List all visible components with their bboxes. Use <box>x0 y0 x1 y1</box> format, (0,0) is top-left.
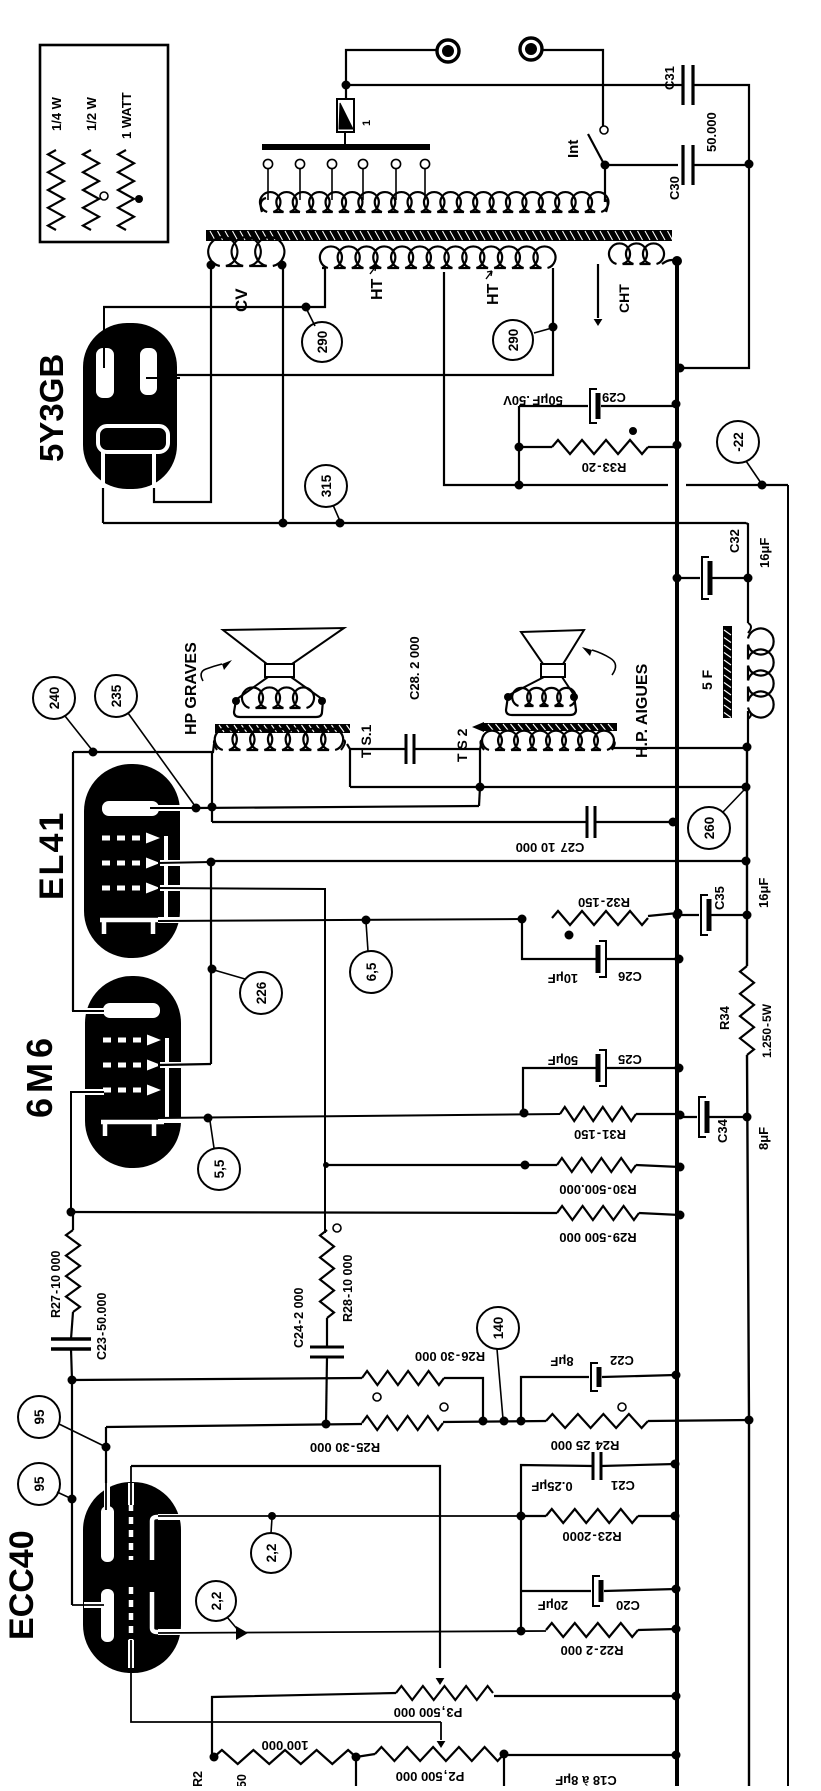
wire R29 right <box>639 1213 680 1215</box>
wire TS1 right down <box>347 744 350 787</box>
wire C21 leads <box>521 1465 593 1516</box>
wire bias node vertical <box>518 406 520 485</box>
HP GRAVES field coil <box>242 687 314 708</box>
R33 1W marker <box>629 427 637 435</box>
junction R26 on R24 line <box>479 1417 488 1426</box>
EL41 electrodes <box>102 801 159 816</box>
transformer TS1 primary <box>215 728 343 750</box>
svg-text:6,5: 6,5 <box>364 962 379 981</box>
P2 ground line <box>504 1754 676 1756</box>
svg-text:T S 2: T S 2 <box>454 728 470 762</box>
P3 wiper arrow <box>436 1678 445 1685</box>
wire C26 leads <box>522 919 596 959</box>
switch Int blade <box>588 134 604 164</box>
potentiometer P3 500.000 <box>396 1686 493 1700</box>
anode2 rail down <box>71 1380 73 1605</box>
junction C22 left <box>517 1417 526 1426</box>
wire C24 down to anode1 line <box>326 1357 327 1424</box>
anode1 line <box>105 1427 107 1512</box>
wire R27 to C23 <box>72 1212 74 1230</box>
svg-text:R29 - 500 000: R29 - 500 000 <box>559 1230 636 1245</box>
capacitor C23 <box>51 1337 91 1341</box>
cathode2 arrow tap <box>236 1626 248 1640</box>
primary tap 6 <box>420 159 429 168</box>
junction C24 on anode1 line <box>322 1420 331 1429</box>
wire TS1-left down to C27 line <box>211 752 213 822</box>
ECC40 anode 1 <box>101 1506 114 1562</box>
5Y3GB filament lead A <box>102 488 104 523</box>
junction TS2-left node <box>476 783 485 792</box>
speaker HP AIGUES cone <box>521 630 584 664</box>
wire fuse to tap bar <box>344 132 346 147</box>
HP AIGUES pointer arrow <box>592 650 616 675</box>
capacitor C28 <box>405 734 408 764</box>
junction EL41 cathode tap <box>362 916 371 925</box>
wire C32 leads <box>677 577 700 579</box>
circle 290 right <box>493 320 533 360</box>
5Y3GB anode 1 lead <box>103 307 105 368</box>
svg-text:R31 - 150: R31 - 150 <box>574 1127 626 1142</box>
choke SF winding <box>748 629 774 718</box>
svg-text:240: 240 <box>47 687 62 710</box>
svg-text:C34: C34 <box>715 1118 730 1143</box>
resistor R33 20 <box>552 440 648 454</box>
wire C27 right <box>595 821 673 823</box>
capacitor C22 <box>591 1363 598 1391</box>
svg-text:100 000: 100 000 <box>262 1738 309 1753</box>
primary tap 5 <box>391 159 400 168</box>
junction EL41 plate node <box>192 804 201 813</box>
svg-text:235: 235 <box>109 684 124 707</box>
svg-text:C20: C20 <box>616 1598 640 1613</box>
svg-text:1.250 - 5W: 1.250 - 5W <box>760 1003 774 1058</box>
R32 1W marker <box>565 931 574 940</box>
capacitor C25 <box>599 1050 606 1086</box>
resistor R24 25 000 <box>546 1414 648 1428</box>
wire switch to C30 <box>605 164 678 166</box>
HP AIGUES field coil <box>512 688 576 706</box>
switch Int contact <box>600 126 608 134</box>
wire R33 leads <box>519 446 552 448</box>
capacitor C31 <box>681 65 684 105</box>
ECC40 grid2 lead channel <box>128 1640 134 1668</box>
resistor 100 000 <box>214 1750 356 1764</box>
junction 140 tap <box>500 1417 509 1426</box>
wire P2 left <box>356 1754 375 1757</box>
wire B+ to TS2 <box>611 747 747 749</box>
junction R23 left <box>517 1512 526 1521</box>
junction R29 right on bus <box>676 1211 685 1220</box>
ECC40 cathode 2 <box>152 1592 162 1632</box>
output tube EL41 envelope <box>84 764 180 958</box>
svg-text:8μF: 8μF <box>550 1354 573 1369</box>
svg-text:C30: C30 <box>667 176 682 200</box>
ground bus <box>675 261 679 1786</box>
5Y3GB filament lead B to CV <box>154 266 211 502</box>
junction R33 right on bus <box>673 441 682 450</box>
junction C34 right <box>743 1113 752 1122</box>
EL41 cathode lead <box>158 917 181 923</box>
junction plate line / TS1-left branch <box>208 803 217 812</box>
wire C23 down <box>71 1349 72 1380</box>
junction 95 tap upper <box>102 1443 111 1452</box>
svg-text:R25 - 30 000: R25 - 30 000 <box>310 1440 380 1455</box>
resistor R30 500.000 <box>557 1158 636 1172</box>
svg-text:10μF: 10μF <box>548 971 578 986</box>
junction P2 ground on bus <box>672 1751 681 1760</box>
svg-text:0.25μF: 0.25μF <box>531 1479 572 1494</box>
wire B+ feed line TS primaries <box>350 786 746 788</box>
circle 260 <box>688 807 730 849</box>
svg-text:CHT: CHT <box>616 284 632 313</box>
legend 1/2W marker circle <box>100 192 108 200</box>
junction HT right voltage tap <box>549 323 558 332</box>
capacitor C27 <box>586 806 589 838</box>
capacitor C24 <box>310 1346 344 1349</box>
6M6 cathode lead <box>158 1117 182 1123</box>
capacitor C30 <box>681 145 684 185</box>
circle -22 <box>717 421 759 463</box>
primary tap 3 <box>327 159 336 168</box>
wire -22 line to rail <box>519 484 668 486</box>
resistor R25 30.000 <box>362 1416 443 1430</box>
EL41 screen lead <box>160 860 181 866</box>
legend resistor symbol 1W <box>118 150 134 230</box>
transformer TS2 primary <box>482 731 614 750</box>
wire terminal1 to fuse and C31 <box>346 50 436 99</box>
junction C32 right <box>744 574 753 583</box>
ECC40 grid 2 <box>129 1587 134 1640</box>
junction EL41 screen <box>207 858 216 867</box>
junction P3 ground on bus <box>672 1692 681 1701</box>
wire right branch down to bus <box>680 164 749 368</box>
speaker HP GRAVES cone <box>223 628 344 664</box>
R25 half-watt marker <box>440 1403 448 1411</box>
EL41 plate line <box>196 806 479 808</box>
mains terminal 1 <box>437 40 459 62</box>
svg-text:P3 , 500 000: P3 , 500 000 <box>394 1705 463 1720</box>
screen bus vertical <box>210 862 212 1064</box>
svg-text:1: 1 <box>361 120 373 126</box>
transformer TS1 core <box>215 724 350 733</box>
svg-text:50: 50 <box>235 1774 249 1786</box>
primary tap 4 <box>358 159 367 168</box>
svg-text:16μF: 16μF <box>757 538 772 568</box>
junction screen voltage tap <box>208 965 217 974</box>
svg-text:290: 290 <box>506 329 521 352</box>
EL41 plate lead <box>158 805 181 811</box>
wire CV right to 315 line <box>282 266 284 523</box>
svg-text:ECC40: ECC40 <box>3 1530 41 1640</box>
svg-text:2,2: 2,2 <box>264 1544 279 1563</box>
fuse F1 <box>337 99 354 132</box>
EL41 g1 lead <box>160 885 181 891</box>
circle 140 <box>477 1307 519 1349</box>
junction R31 right on bus <box>676 1111 685 1120</box>
ECC40 anode 2 <box>101 1589 114 1642</box>
circle 240 <box>33 677 75 719</box>
wire EL41 grid chain <box>324 1165 326 1230</box>
wire TS2 left down <box>480 744 481 787</box>
junction R30 right on bus <box>676 1163 685 1172</box>
wire R24 to B+ rail <box>648 1420 749 1421</box>
junction 95 tap lower <box>68 1495 77 1504</box>
wire R28 to C24 <box>326 1318 328 1347</box>
6M6 electrodes <box>103 1003 160 1018</box>
ECC40 anode1 lead channel <box>104 1483 110 1508</box>
junction C29 right on bus <box>672 400 681 409</box>
svg-text:140: 140 <box>491 1317 506 1340</box>
primary tap bar <box>262 144 430 150</box>
svg-text:16μF: 16μF <box>756 878 771 908</box>
wire C34 leads <box>680 1116 697 1118</box>
circle 95 upper <box>18 1396 60 1438</box>
wire C20 leads <box>521 1590 591 1592</box>
junction R32 right on bus <box>674 909 683 918</box>
svg-text:C27 10 000: C27 10 000 <box>516 840 585 855</box>
junction C22 right on bus <box>672 1371 681 1380</box>
THC left heater lead with arrow <box>597 264 599 318</box>
legend 1W marker dot <box>135 195 143 203</box>
svg-text:5,5: 5,5 <box>212 1159 227 1178</box>
svg-text:260: 260 <box>702 817 717 840</box>
svg-text:R34: R34 <box>717 1005 732 1030</box>
R24 half-watt marker <box>618 1403 626 1411</box>
junction R33 left <box>515 443 524 452</box>
winding HT <box>320 246 556 268</box>
junction C25 right on bus <box>675 1064 684 1073</box>
svg-text:C31: C31 <box>662 66 677 90</box>
ECC40 cathode1 lead <box>158 1514 182 1520</box>
svg-text:T S.1: T S.1 <box>358 724 374 758</box>
wire C30 right <box>693 164 749 166</box>
resistor R34 <box>740 966 754 1055</box>
svg-text:C18 à 8μF: C18 à 8μF <box>555 1773 616 1786</box>
primary tap 2 <box>295 159 304 168</box>
wire HT-left to 5Y3 plate1 <box>103 268 325 307</box>
wire R30 right <box>636 1165 680 1167</box>
6M6 plate lead <box>85 1008 104 1014</box>
resistor R26 30.000 <box>362 1371 444 1385</box>
preamp tube ECC40 envelope <box>83 1482 181 1673</box>
svg-text:20μF: 20μF <box>538 1598 568 1613</box>
junction centre-tap/R33 node <box>515 481 524 490</box>
winding THC <box>609 243 664 264</box>
circle 235 <box>95 675 137 717</box>
winding CV <box>208 237 284 266</box>
junction C26 right on bus <box>675 955 684 964</box>
P2 right drop <box>503 1754 505 1786</box>
wire C35 leads <box>677 914 699 916</box>
potentiometer P2 500.000 <box>375 1747 504 1761</box>
svg-text:226: 226 <box>254 981 269 1004</box>
ECC40 cathode2 lead <box>158 1629 182 1635</box>
svg-text:HT: HT <box>369 278 386 300</box>
HP GRAVES pointer arrow <box>201 664 222 681</box>
svg-text:R30 - 500.000: R30 - 500.000 <box>559 1182 636 1197</box>
resistor R27 10.000 <box>66 1230 80 1312</box>
screens line to B+ <box>211 860 746 862</box>
HP AIGUES coil end dots <box>504 693 512 701</box>
HP AIGUES field frame <box>506 696 576 715</box>
svg-text:R33 - 20: R33 - 20 <box>582 460 627 475</box>
6M6 screen lead <box>160 1062 182 1068</box>
circle 2,2 lower <box>196 1581 236 1621</box>
circle 228 <box>240 972 282 1014</box>
svg-text:H.P. AIGUES: H.P. AIGUES <box>634 663 651 758</box>
svg-text:C32: C32 <box>727 529 742 553</box>
junction -22 tap <box>758 481 767 490</box>
junction on EL41 grid line <box>521 1161 530 1170</box>
svg-text:5 F: 5 F <box>699 669 715 690</box>
svg-text:R22 - 2 000: R22 - 2 000 <box>561 1643 624 1658</box>
junction R24 on B+ rail <box>745 1416 754 1425</box>
svg-text:-22: -22 <box>731 432 746 452</box>
junction EL41 grid line corner <box>323 1162 329 1168</box>
6M6 g1 lead <box>85 1089 104 1095</box>
svg-text:P2 , 500 000: P2 , 500 000 <box>396 1769 465 1784</box>
junction 6M6 cathode tap <box>204 1114 213 1123</box>
svg-text:C21: C21 <box>611 1478 635 1493</box>
svg-text:R28 - 10 000: R28 - 10 000 <box>341 1255 355 1322</box>
wire R22 right <box>638 1629 676 1630</box>
svg-text:C28. 2 000: C28. 2 000 <box>407 636 422 700</box>
junction 6M6 grid node <box>67 1208 76 1217</box>
svg-text:290: 290 <box>315 331 330 354</box>
resistor R22 2.000 <box>546 1623 638 1637</box>
wire R32 right <box>648 913 678 916</box>
legend box frame <box>40 45 168 242</box>
wire C25 leads <box>523 1068 596 1113</box>
legend resistor symbol 1/4W <box>48 150 64 230</box>
wire R31 right <box>636 1113 680 1115</box>
P3 ground line <box>494 1695 676 1697</box>
5Y3GB anode slot 2 <box>140 348 157 395</box>
junction R22 right on bus <box>672 1625 681 1634</box>
svg-text:8μF: 8μF <box>756 1127 771 1150</box>
svg-text:R24 25 000: R24 25 000 <box>551 1438 620 1453</box>
svg-text:Int: Int <box>565 140 582 158</box>
junction C27 on bus <box>669 818 678 827</box>
circle 95 lower <box>18 1463 60 1505</box>
circle 5,5 <box>198 1148 240 1190</box>
junction R21 right <box>352 1753 361 1762</box>
resistor R23 2000 <box>546 1509 638 1523</box>
resistor R32 150 <box>552 911 648 925</box>
junction THC right / bus top <box>672 256 682 266</box>
svg-text:C35: C35 <box>712 886 727 910</box>
junction B+ choke output <box>743 743 752 752</box>
primary tap 1 <box>263 159 272 168</box>
junction CV-right on 315 line <box>279 519 288 528</box>
junction R21 left <box>210 1753 219 1762</box>
junction plate1 voltage tap <box>302 303 311 312</box>
6M6 grid line to R29 <box>71 1212 557 1213</box>
wire cathode1 to C20/R22 <box>520 1516 522 1630</box>
junction 315 tap <box>336 519 345 528</box>
svg-text:EL41: EL41 <box>33 811 71 900</box>
capacitor C32 <box>702 557 709 599</box>
svg-text:C22: C22 <box>610 1353 634 1368</box>
capacitor C34 <box>699 1097 706 1137</box>
wire terminal2 to switch <box>542 50 603 126</box>
ECC40 anode2 lead <box>84 1602 104 1608</box>
svg-text:50.000: 50.000 <box>704 112 719 152</box>
svg-text:C24 - 2 000: C24 - 2 000 <box>292 1287 306 1348</box>
HP GRAVES coil end dots <box>232 697 240 705</box>
svg-text:C29: C29 <box>602 390 626 405</box>
svg-text:1/2 W: 1/2 W <box>84 96 99 131</box>
ECC40 grid1 lead channel <box>128 1483 134 1505</box>
wire P3 left <box>212 1693 396 1757</box>
svg-text:6M6: 6M6 <box>19 1033 60 1118</box>
junction cathode1 voltage tap <box>268 1512 276 1520</box>
junction CV right <box>278 261 287 270</box>
B+ rail <box>747 747 749 1786</box>
P2 wiper arrow <box>440 1722 442 1740</box>
wire R23 leads <box>521 1515 546 1517</box>
svg-text:1/4 W: 1/4 W <box>49 96 64 131</box>
R26 half-watt marker <box>373 1393 381 1401</box>
svg-text:HT: HT <box>485 283 502 305</box>
switch Int pivot junction <box>601 161 610 170</box>
svg-text:R27 - 10 000: R27 - 10 000 <box>49 1251 63 1318</box>
junction R32 left <box>518 915 527 924</box>
wire R26 right jog <box>444 1378 483 1421</box>
svg-text:95: 95 <box>32 1476 47 1492</box>
R21 right drop <box>355 1757 357 1786</box>
wire C29 leads <box>519 405 588 407</box>
svg-text:2,2: 2,2 <box>209 1592 224 1611</box>
junction P2 right <box>500 1750 509 1759</box>
svg-text:HP GRAVES: HP GRAVES <box>183 642 200 735</box>
5Y3GB filament <box>98 426 168 452</box>
anode2 line <box>72 1378 362 1380</box>
ECC40 grid 1 <box>129 1504 134 1560</box>
junction B+ TS line <box>742 783 751 792</box>
mains terminal 2 <box>520 38 542 60</box>
svg-text:R23 - 2000: R23 - 2000 <box>562 1529 621 1544</box>
wire switch to transformer primary <box>604 165 606 202</box>
wire choke output <box>747 711 749 745</box>
wire HT-right to 5Y3 plate2 <box>158 268 553 378</box>
transformer TS2 core <box>484 723 617 731</box>
svg-text:C25: C25 <box>618 1052 642 1067</box>
capacitor C35 <box>701 895 708 935</box>
svg-text:1 WATT: 1 WATT <box>119 92 134 139</box>
plate feed rail left <box>72 752 74 1011</box>
circle 6,5 <box>350 951 392 993</box>
C27 line <box>212 821 587 823</box>
junction CV left <box>207 261 216 270</box>
resistor R28 10.000 <box>320 1230 334 1318</box>
circle 2,2 upper <box>251 1533 291 1573</box>
junction R23 right on bus <box>671 1512 680 1521</box>
junction C25 branch on cathode line <box>520 1109 529 1118</box>
HP GRAVES field frame <box>234 700 323 717</box>
ECC40 cathode 1 <box>152 1517 162 1560</box>
transformer primary winding <box>260 192 608 212</box>
junction cathode bypass node <box>517 1627 526 1636</box>
wire TS1 left to plate-feed line <box>73 744 214 752</box>
capacitor C29 <box>590 389 597 423</box>
wire C28 leads <box>350 748 406 750</box>
circle 290 left <box>302 322 342 362</box>
capacitor C20 <box>593 1576 600 1606</box>
wire C31 right <box>693 85 749 163</box>
EL41 grid line to R30 <box>325 1164 557 1166</box>
junction screens on B+ <box>742 857 751 866</box>
